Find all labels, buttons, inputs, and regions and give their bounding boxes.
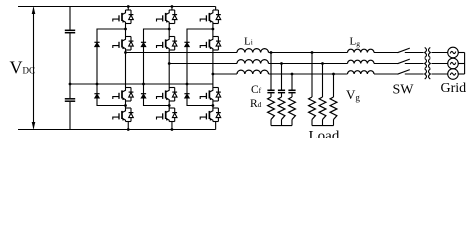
switch SW phase b blade (398, 59, 410, 64)
node: leg 1 negative rail junction (127, 128, 130, 131)
diode D15 (leg 1 upper clamp diode) (94, 42, 99, 47)
inductor Li phase a coil (237, 49, 269, 53)
node: leg 1 positive rail junction (127, 5, 130, 8)
wire: grid source phase b to star bus (458, 63, 464, 65)
node: leg 1 lower clamp junction (124, 104, 127, 107)
inductor Lg phase b coil (348, 60, 375, 63)
inductor Lg phase c coil (348, 71, 375, 74)
wire: phase a line from Lg to switch (374, 52, 398, 54)
inductor Lg phase a coil (348, 49, 375, 52)
wire: leg 2 node between S21 and S22 (168, 24, 170, 37)
wire: leg 1 output vertical (125, 50, 127, 88)
switch SW phase a blade (398, 48, 410, 53)
Vdc measurement arrow (32, 7, 36, 130)
node: leg 2 negative rail junction (171, 128, 174, 131)
node: leg 2 lower clamp junction (168, 104, 171, 107)
transistor S24 (leg 2 outer lower IGBT with antiparallel diode) (157, 108, 178, 122)
wire: leg 2 riser to positive rail (171, 7, 173, 11)
diode D35 (leg 3 upper clamp diode) (184, 42, 189, 47)
node: leg 1 clamp neutral junction (96, 83, 99, 86)
switch SW phase c blade (398, 70, 410, 75)
wire: phase b line from switch to transformer (405, 63, 424, 65)
node: leg 3 lower clamp junction (212, 104, 215, 107)
wire: leg 1 clamp branch (97, 29, 126, 106)
wire: leg 1 node between S11 and S12 (125, 24, 127, 37)
wire: grid source phase a to star bus (458, 52, 464, 54)
svg-text:Li: Li (244, 36, 253, 48)
wire: phase a line from Li to Lg (269, 52, 348, 54)
svg-text:Grid: Grid (441, 81, 467, 96)
node: leg 2 upper clamp junction (168, 28, 171, 31)
wire: leg 3 clamp branch (187, 29, 213, 106)
resistor Rd phase c (289, 97, 296, 120)
svg-text:Cf: Cf (251, 84, 262, 96)
node: leg 3 clamp neutral junction (186, 83, 189, 86)
wire: leg 2 riser to negative rail (171, 122, 173, 130)
grid AC source phase c (448, 69, 459, 80)
capacitor Cf phase b (278, 90, 285, 92)
wire: phase b line from Lg to switch (374, 63, 398, 65)
grid AC source phase a (448, 47, 459, 58)
node: leg 1 upper clamp junction (124, 28, 127, 31)
diode D16 (leg 1 lower clamp diode) (94, 94, 99, 99)
svg-text:Rd: Rd (250, 98, 262, 110)
capacitor: lower DC-link capacitor C2 (65, 99, 75, 101)
wire: leg 2 node between S23 and S24 (168, 101, 170, 108)
wire: grid star-point bus (464, 53, 466, 75)
wire: load branch vertical phase a (311, 53, 313, 98)
node: leg 2 phase-b output junction (168, 62, 171, 65)
wire: leg 3 node between S31 and S32 (212, 24, 214, 37)
resistor Rd phase b (278, 97, 285, 120)
wire: phase b line from transformer to grid source (432, 63, 448, 65)
wire: DC-link midpoint (neutral) bus (70, 83, 213, 85)
wire: load branch vertical phase c (333, 74, 335, 97)
wire: load branch vertical phase b (322, 64, 324, 98)
wire: positive DC rail (18, 6, 216, 8)
transistor S14 (leg 1 outer lower IGBT with antiparallel diode) (113, 108, 134, 122)
wire: leg 3 node between S33 and S34 (212, 101, 214, 108)
transistor S31 (leg 3 outer upper IGBT with antiparallel diode) (200, 10, 221, 24)
grid AC source phase b (448, 58, 459, 69)
node: Cf branch tap phase b (280, 62, 283, 65)
node: neutral junction at DC link (69, 83, 72, 86)
wire: Cf branch stub phase c (291, 120, 293, 126)
resistor: load resistor phase c (330, 97, 337, 120)
wire: phase a line from switch to transformer (405, 52, 424, 54)
wire: leg 2 output vertical (168, 50, 170, 88)
wire: Cf branch vertical phase a (270, 53, 272, 98)
transformer: grid transformer winding pair phase b (425, 58, 431, 68)
inductor Li phase b coil (237, 60, 269, 64)
transistor S32 (leg 3 inner upper IGBT with antiparallel diode) (200, 37, 221, 51)
wire: Cf branch vertical phase b (281, 64, 283, 98)
transistor S33 (leg 3 inner lower IGBT with antiparallel diode) (200, 88, 221, 102)
diode D25 (leg 2 upper clamp diode) (141, 42, 146, 47)
wire: phase b line from inverter to Li (169, 63, 237, 65)
wire: phase c line from inverter to Li (213, 73, 237, 75)
wire: phase b line from Li to Lg (269, 63, 348, 65)
wire: leg 2 clamp branch (144, 29, 170, 106)
wire: phase c line from Lg to switch (374, 73, 398, 75)
wire: phase c line from Li to Lg (269, 73, 348, 75)
wire: Cf branch stub phase a (270, 120, 272, 126)
node: leg 1 phase-a output junction (124, 51, 127, 54)
capacitor Cf phase a (267, 90, 274, 92)
diode D26 (leg 2 lower clamp diode) (141, 94, 146, 99)
wire: phase a line from inverter to Li (126, 52, 238, 54)
wire: leg 3 output vertical (212, 50, 214, 88)
svg-text:Load: Load (309, 129, 340, 139)
transistor S23 (leg 2 inner lower IGBT with antiparallel diode) (157, 88, 178, 102)
capacitor: upper DC-link capacitor C1 (65, 30, 75, 32)
wire: load branch stub phase a (311, 120, 313, 126)
wire: grid source phase c to star bus (458, 73, 464, 75)
wire: Cf/Rd star-point connector (271, 125, 292, 127)
node: leg 3 upper clamp junction (212, 28, 215, 31)
wire: load branch stub phase c (333, 120, 335, 126)
node: leg 2 clamp neutral junction (142, 83, 145, 86)
node: load branch tap phase b (321, 62, 324, 65)
transistor S13 (leg 1 inner lower IGBT with antiparallel diode) (113, 88, 134, 102)
wire: leg 1 node between S13 and S14 (125, 101, 127, 108)
wire: leg 3 riser to positive rail (215, 7, 217, 11)
transistor S12 (leg 1 inner upper IGBT with antiparallel diode) (113, 37, 134, 51)
wire: leg 1 riser to negative rail (127, 122, 129, 130)
wire: leg 1 riser to positive rail (127, 7, 129, 11)
wire: DC-link branch (69, 7, 71, 130)
node: load branch tap phase c (332, 73, 335, 76)
wire: Cf branch stub phase b (281, 120, 283, 126)
capacitor Cf phase c (288, 90, 295, 92)
node: Cf branch tap phase a (270, 51, 273, 54)
transformer: grid transformer winding pair phase c (425, 69, 431, 79)
node: leg 3 phase-c output junction (212, 73, 215, 76)
inductor Li phase c coil (237, 70, 269, 74)
wire: phase c line from transformer to grid source (432, 73, 448, 75)
wire: phase c line from switch to transformer (405, 73, 424, 75)
node: leg 2 positive rail junction (171, 5, 174, 8)
svg-text:SW: SW (393, 83, 415, 98)
wire: load branch stub phase b (322, 120, 324, 126)
resistor Rd phase a (268, 97, 275, 120)
resistor: load resistor phase b (319, 97, 326, 120)
wire: leg 3 riser to negative rail (215, 122, 217, 130)
transformer: grid transformer winding pair phase a (425, 47, 431, 57)
transistor S21 (leg 2 outer upper IGBT with antiparallel diode) (157, 10, 178, 24)
wire: load star-point connector (312, 125, 334, 127)
wire: Cf branch vertical phase c (291, 74, 293, 97)
node: Cf branch tap phase c (291, 73, 294, 76)
transistor S22 (leg 2 inner upper IGBT with antiparallel diode) (157, 37, 178, 51)
transistor S34 (leg 3 outer lower IGBT with antiparallel diode) (200, 108, 221, 122)
diode D36 (leg 3 lower clamp diode) (184, 94, 189, 99)
wire: negative DC rail (18, 129, 216, 131)
wire: phase a line from transformer to grid source (432, 52, 448, 54)
resistor: load resistor phase a (309, 97, 316, 120)
transistor S11 (leg 1 outer upper IGBT with antiparallel diode) (113, 10, 134, 24)
node: load branch tap phase a (311, 51, 314, 54)
